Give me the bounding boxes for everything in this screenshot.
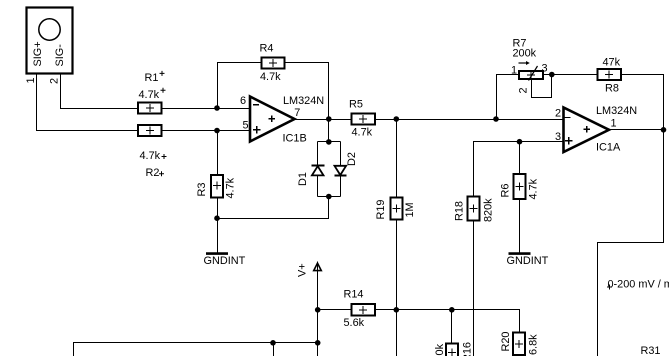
node diode top	[326, 139, 332, 145]
connector X1 body	[27, 8, 73, 74]
pin 1 label R7	[511, 65, 517, 77]
label R14	[344, 289, 364, 301]
node output IC1A	[661, 127, 667, 133]
svg-text:R4: R4	[260, 43, 274, 55]
svg-text:LM324N: LM324N	[283, 95, 324, 107]
svg-text:R6: R6	[500, 184, 512, 198]
label R5	[349, 99, 363, 111]
svg-text:47k: 47k	[603, 57, 621, 69]
label R16	[462, 342, 474, 356]
wire R14 right rail	[376, 310, 520, 333]
wire R14 left	[318, 309, 352, 311]
op-amp IC1A	[564, 108, 610, 153]
label 10k R16	[434, 343, 446, 356]
wire output down to meter	[598, 130, 664, 356]
ground GNDINT left	[204, 254, 246, 267]
pin 2 label	[555, 107, 561, 119]
supply V+	[314, 262, 322, 272]
label R3	[196, 183, 208, 197]
svg-text:1M: 1M	[404, 202, 416, 217]
wire R16 drop	[451, 310, 453, 344]
label 47k	[603, 57, 621, 69]
wire diode bottom to gnd rail	[218, 197, 329, 219]
label IC1B	[283, 133, 307, 145]
label 4.7k R2	[140, 150, 167, 162]
wire R3 to ground	[217, 198, 219, 253]
svg-text:R8: R8	[605, 83, 619, 95]
wire pin1 to R2	[37, 75, 139, 131]
svg-text:5.6k: 5.6k	[344, 317, 365, 329]
pin 1 label	[611, 118, 617, 130]
wire R7 branch up	[497, 75, 520, 120]
node junction R3 tap	[214, 128, 220, 134]
svg-text:R5: R5	[349, 99, 363, 111]
node R7 tap	[493, 116, 499, 122]
node R6 tap	[517, 139, 523, 145]
label 4.7k R4	[260, 71, 281, 83]
label 200k	[513, 48, 537, 60]
label 4.7k R1	[139, 88, 166, 101]
label 4.7k R5	[352, 126, 373, 138]
wire R5 to IC1A pin2	[376, 119, 564, 121]
wire R8 to output	[622, 75, 664, 130]
svg-text:6: 6	[240, 95, 246, 107]
svg-text:R20: R20	[500, 332, 512, 352]
node R19 bottom tap	[394, 307, 400, 313]
diode D1	[312, 166, 325, 176]
svg-text:R18: R18	[454, 201, 466, 221]
wire pin5 node to R3	[217, 131, 219, 175]
svg-text:R31: R31	[641, 345, 661, 356]
label 4.7k R3	[225, 177, 237, 198]
wire IC1B output	[295, 119, 352, 121]
svg-text:SIG-: SIG-	[54, 44, 66, 67]
node output junction	[326, 116, 332, 122]
wire bottom rail	[74, 343, 318, 356]
pin 3 label R7	[542, 63, 548, 75]
label 1M	[404, 202, 416, 217]
node R19 top	[394, 116, 400, 122]
resistor R6	[514, 174, 526, 199]
svg-text:200k: 200k	[513, 48, 537, 60]
wire R1 to pin6	[162, 108, 251, 110]
svg-text:2: 2	[555, 107, 561, 119]
svg-text:10k: 10k	[434, 343, 446, 356]
svg-text:2: 2	[518, 87, 530, 93]
svg-text:4.7k: 4.7k	[225, 177, 237, 198]
resistor R2	[138, 125, 162, 136]
label R4	[260, 43, 274, 55]
svg-text:2: 2	[49, 78, 61, 84]
pin 6 label	[240, 95, 246, 107]
wire R19 vertical	[396, 120, 398, 356]
pin 5 label	[243, 119, 249, 131]
wire R6 vertical	[519, 142, 521, 175]
svg-text:IC1B: IC1B	[283, 133, 307, 145]
wire R4 feedback loop	[218, 63, 329, 120]
resistor R4	[261, 57, 284, 68]
svg-text:V+: V+	[297, 263, 309, 277]
svg-text:4.7k: 4.7k	[352, 126, 373, 138]
wire R7 to R8	[543, 74, 598, 76]
label LM324N IC1A	[596, 105, 637, 117]
label 6.8k	[528, 334, 540, 355]
wire output to diode pair	[328, 120, 330, 142]
svg-text:6.8k: 6.8k	[528, 334, 540, 355]
svg-text:R2: R2	[146, 167, 160, 179]
svg-text:R16: R16	[462, 342, 474, 356]
connector pin 1	[25, 77, 37, 83]
svg-text:4.7k: 4.7k	[140, 150, 161, 162]
wire R6 to ground	[519, 200, 521, 253]
svg-text:5: 5	[243, 119, 249, 131]
ground GNDINT right	[507, 254, 549, 267]
connector label SIG+	[32, 41, 44, 66]
pin 2 label R7	[518, 87, 530, 93]
resistor R1	[138, 102, 162, 113]
wire IC1A output	[610, 129, 664, 131]
label 5.6k	[344, 317, 365, 329]
node R14 left	[315, 307, 321, 313]
wire IC1A pin3 rail	[474, 142, 564, 197]
resistor R16	[446, 344, 458, 356]
resistor R3	[211, 175, 223, 198]
op-amp IC1B	[250, 97, 295, 142]
node bottom rail left	[270, 340, 276, 346]
label R20	[500, 332, 512, 352]
svg-text:4.7k: 4.7k	[528, 178, 540, 199]
label R2	[146, 167, 165, 179]
svg-text:LM324N: LM324N	[596, 105, 637, 117]
svg-text:1: 1	[25, 77, 37, 83]
label 820k	[483, 198, 495, 222]
svg-text:R1: R1	[145, 72, 159, 84]
label R8	[605, 83, 619, 95]
svg-text:R19: R19	[375, 200, 387, 220]
wire V+ down	[317, 271, 319, 356]
trimmer R7	[519, 66, 543, 81]
resistor R8	[598, 69, 622, 80]
node R3 bottom	[214, 215, 220, 221]
svg-text:7: 7	[294, 107, 300, 119]
svg-text:3: 3	[542, 63, 548, 75]
label R18	[454, 201, 466, 221]
connector pin 2	[49, 78, 61, 84]
label R6	[500, 184, 512, 198]
label R1	[145, 71, 165, 84]
label R19	[375, 200, 387, 220]
resistor R5	[352, 113, 376, 124]
label V+	[297, 263, 309, 277]
pin 3 label	[555, 131, 561, 143]
svg-text:4.7k: 4.7k	[260, 71, 281, 83]
svg-text:D2: D2	[346, 152, 358, 166]
node diode bottom	[326, 194, 332, 200]
resistor R18	[468, 196, 480, 220]
svg-text:4.7k: 4.7k	[139, 89, 160, 101]
label D2	[346, 152, 358, 166]
label R7	[513, 37, 527, 49]
label 4.7k R6	[528, 178, 540, 199]
svg-text:IC1A: IC1A	[596, 142, 621, 154]
resistor R19	[390, 197, 402, 219]
label D1	[297, 172, 309, 186]
svg-text:D1: D1	[297, 172, 309, 186]
wire diode branch frame	[318, 142, 341, 197]
svg-text:1: 1	[611, 118, 617, 130]
wire R2 to pin5	[162, 130, 251, 132]
node bottom rail right	[315, 340, 321, 346]
resistor R14	[351, 304, 375, 315]
trimmer wiper arrow	[519, 61, 530, 65]
label IC1A	[596, 142, 621, 154]
svg-text:R14: R14	[344, 289, 364, 301]
svg-text:R3: R3	[196, 183, 208, 197]
node R16 tap	[449, 307, 455, 313]
svg-text:0-200 mV / m: 0-200 mV / m	[608, 279, 669, 291]
diode D2	[335, 166, 347, 176]
resistor R20	[513, 333, 525, 356]
svg-text:GNDINT: GNDINT	[204, 255, 246, 267]
label 0-200 mV	[607, 279, 669, 291]
connector label SIG-	[54, 44, 66, 67]
svg-text:GNDINT: GNDINT	[507, 255, 549, 267]
node junction R4 tap	[214, 105, 220, 111]
wire pin2 to R1	[61, 75, 139, 109]
label LM324N IC1B	[283, 95, 324, 107]
label R31	[641, 345, 661, 356]
wire R18 down	[473, 221, 475, 356]
svg-text:SIG+: SIG+	[32, 41, 44, 66]
svg-text:1: 1	[511, 65, 517, 77]
svg-text:820k: 820k	[483, 198, 495, 222]
wire R7 wiper to pin3 node	[532, 75, 552, 98]
pin 7 label	[294, 107, 300, 119]
node R7 right	[549, 72, 555, 78]
